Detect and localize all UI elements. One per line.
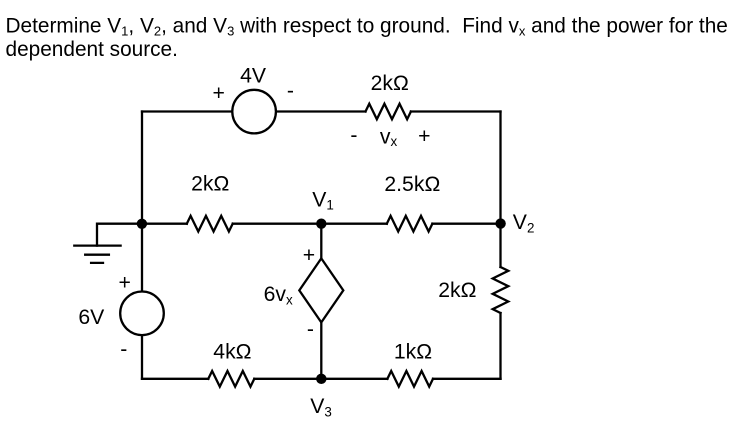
svg-text:6V: 6V [78, 306, 105, 329]
svg-text:Determine V1, V2, and V3 with: Determine V1, V2, and V3 with respect to… [6, 15, 728, 39]
svg-text:4V: 4V [240, 65, 267, 88]
svg-text:dependent source.: dependent source. [6, 38, 178, 61]
svg-text:vx: vx [380, 126, 398, 149]
svg-text:1kΩ: 1kΩ [394, 341, 432, 364]
svg-text:+: + [213, 82, 225, 105]
svg-text:+: + [418, 125, 430, 148]
svg-text:V1: V1 [312, 189, 334, 213]
svg-text:4kΩ: 4kΩ [213, 341, 251, 364]
svg-text:6vx: 6vx [264, 283, 293, 307]
svg-text:2kΩ: 2kΩ [191, 173, 229, 196]
svg-text:-: - [287, 80, 294, 103]
svg-text:-: - [120, 338, 127, 361]
svg-text:2.5kΩ: 2.5kΩ [384, 173, 440, 196]
svg-text:2kΩ: 2kΩ [438, 279, 476, 302]
svg-text:2kΩ: 2kΩ [371, 72, 409, 95]
svg-text:V2: V2 [513, 211, 535, 236]
svg-text:+: + [303, 244, 315, 267]
svg-text:-: - [307, 318, 314, 341]
svg-text:-: - [350, 124, 357, 147]
svg-text:V3: V3 [310, 395, 332, 419]
svg-text:+: + [119, 272, 131, 295]
